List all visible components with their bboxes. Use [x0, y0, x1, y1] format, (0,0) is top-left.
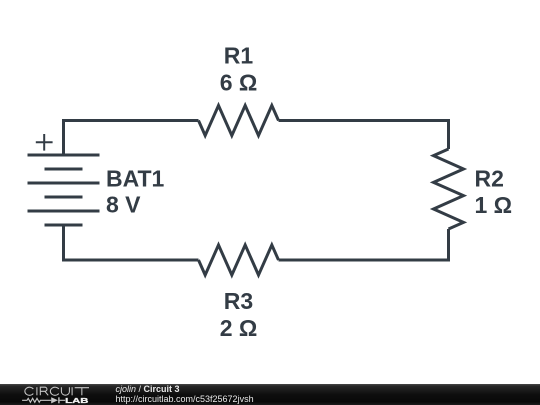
resistor R1 value 6 ohm — [220, 70, 258, 96]
battery BAT1 plates — [28, 155, 100, 225]
resistor R3 value 2 ohm — [220, 315, 258, 341]
svg-text:2 Ω: 2 Ω — [220, 315, 258, 341]
CircuitLab logo wordmark LAB — [65, 396, 89, 405]
battery BAT1 plus sign — [36, 134, 53, 151]
resistor R3 label — [224, 288, 253, 314]
svg-text:R3: R3 — [224, 288, 253, 314]
svg-text:6 Ω: 6 Ω — [220, 70, 258, 96]
CircuitLab logo diode symbol — [51, 397, 65, 403]
svg-text:http://circuitlab.com/c53f2567: http://circuitlab.com/c53f25672jvsh — [116, 394, 254, 404]
battery BAT1 value 8 V — [106, 192, 141, 218]
footer bar — [0, 384, 540, 405]
CircuitLab logo resistor squiggle — [22, 398, 51, 402]
svg-text:1 Ω: 1 Ω — [475, 192, 513, 218]
resistor R2 value 1 ohm — [475, 192, 513, 218]
wire: top rail right segment from R1 to top-right corner — [279, 121, 449, 150]
resistor R1 label — [224, 42, 254, 68]
resistor R1 — [199, 106, 279, 136]
wire: top rail left segment from battery to R1 — [62, 119, 199, 122]
svg-text:BAT1: BAT1 — [106, 166, 165, 192]
resistor R2 — [434, 149, 464, 229]
CircuitLab logo wordmark CIRCUIT (outline letters) — [25, 387, 89, 395]
svg-text:R2: R2 — [475, 166, 504, 192]
battery BAT1 label — [106, 166, 165, 192]
wire: bottom rail left segment from R3 to battery bottom lead — [64, 225, 199, 260]
footer url line — [116, 394, 254, 404]
footer credit line: cjolin / Circuit 3 — [116, 384, 180, 394]
wire: battery top lead from plus plate up to top rail — [62, 121, 65, 156]
wire: right rail lower segment from R2 to bottom-right corner — [279, 229, 449, 260]
resistor R2 label — [475, 166, 504, 192]
svg-text:R1: R1 — [224, 42, 254, 68]
svg-text:8 V: 8 V — [106, 192, 141, 218]
svg-text:LAB: LAB — [65, 396, 89, 405]
svg-text:cjolin / Circuit 3: cjolin / Circuit 3 — [116, 384, 180, 394]
resistor R3 — [199, 245, 279, 275]
